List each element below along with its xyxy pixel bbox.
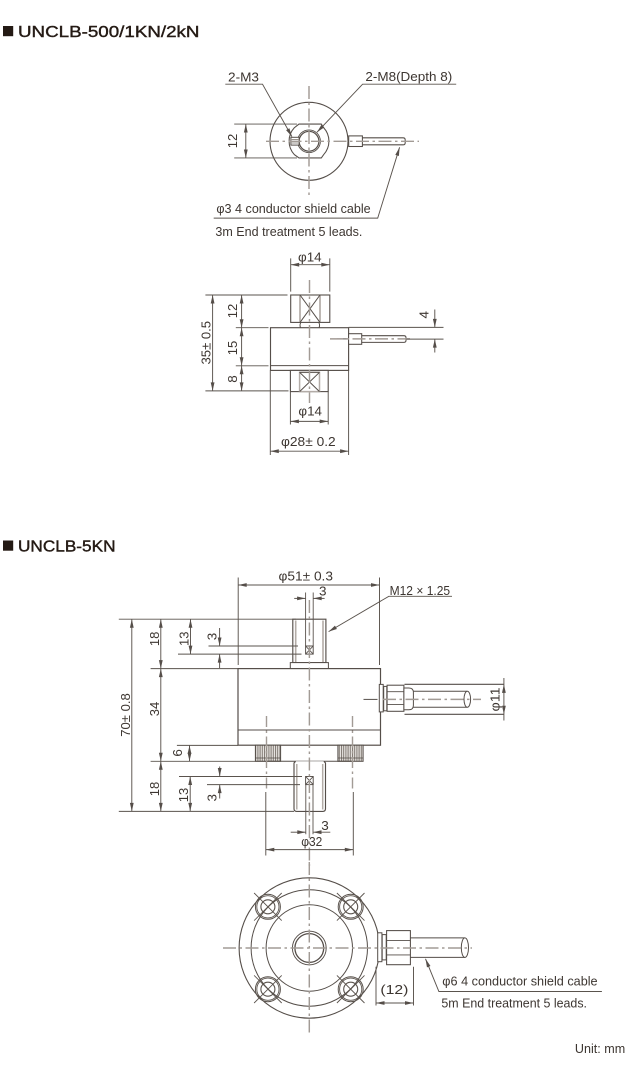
D2 gland nose [404,688,414,710]
D2 bottom stud [294,761,326,811]
svg-text:M12 × 1.25: M12 × 1.25 [390,583,451,598]
D2 dim 13 top dimension line [190,619,192,654]
D2 dim phi51 extension lines [238,578,379,666]
D3 gland washer [378,933,382,962]
svg-text:12: 12 [226,134,240,149]
D2 right knurled boss [338,745,363,761]
D3 leader phi6 [426,959,602,992]
D2 inner cable end cap [464,691,471,707]
D2 dim phi32 extension lines [266,792,354,856]
D1 left extension lines [205,295,288,391]
D2 phi3 hole lines bottom [306,785,313,835]
D1 side view cable centerline [330,338,410,340]
svg-text:18: 18 [148,632,162,647]
D1 top view vertical centerline [308,86,310,197]
D1 M8 hole circle [299,131,319,151]
D3 boss circle phi32 [266,905,352,991]
D3 dim (12) dimension line [376,1002,414,1004]
D2 dim phi32 dimension line [266,849,354,851]
svg-text:12: 12 [226,304,240,319]
D1 leader 2-M3 [225,84,292,136]
D1 top stud thread lines [300,296,320,323]
D2 bottom hole box [306,777,314,785]
D3 gland hex [387,931,411,965]
D1 top view horizontal centerline [266,140,419,142]
D2 bolt centerline right [352,716,354,790]
D3 center hole inner circle [295,934,324,963]
D1 M8 thread outer circle [298,130,321,153]
D2 gland washer1 [379,684,383,712]
D2 top hole box [306,646,314,654]
D2 top stud thread lines [296,621,323,663]
svg-text:4: 4 [417,311,431,319]
D2 dim 18 bottom dimension line [160,761,162,811]
D1 dim 15 dimension line [241,328,243,366]
svg-text:φ6 4 conductor shield cable: φ6 4 conductor shield cable [442,974,597,989]
D3 bolt bottom-left [254,975,282,1003]
D1 top stud cross [300,295,320,322]
D2 bolt centerline left [266,716,268,790]
D1 body [271,328,349,371]
D2 side view vertical centerline [308,600,310,866]
D2 dim phi51 dimension line [238,584,379,586]
D1 bottom stud [290,370,328,391]
svg-text:13: 13 [177,788,191,803]
D3 bolt bottom-right [337,975,365,1003]
svg-text:φ14: φ14 [298,250,322,264]
D1 top view outer circle (body phi28) [270,102,348,180]
D1 dim 4 arrows [434,310,436,353]
svg-text:35± 0.5: 35± 0.5 [200,321,214,365]
svg-text:φ51± 0.3: φ51± 0.3 [279,570,334,584]
svg-text:3: 3 [319,585,327,599]
D2 top stud [293,619,326,662]
D2 gland washer2 [384,686,387,710]
svg-text:φ3 4 conductor shield cable: φ3 4 conductor shield cable [216,201,370,216]
D2 dim 3 top arrows [294,597,324,599]
D2 outer tube [405,684,504,714]
svg-text:34: 34 [148,702,162,717]
svg-text:8: 8 [226,375,240,383]
D1 cable [362,138,405,145]
svg-text:70± 0.8: 70± 0.8 [119,693,133,737]
D2 body inner line [238,729,381,731]
svg-text:3: 3 [321,819,329,833]
D1 M3 hole [291,137,299,145]
D3 bolt top-left [254,893,282,921]
svg-text:15: 15 [226,341,240,356]
svg-text:6: 6 [171,749,185,757]
svg-text:UNCLB-500/1KN/2kN: UNCLB-500/1KN/2kN [18,24,200,41]
svg-text:φ32: φ32 [301,835,322,849]
D1 dim 8 dimension line [241,366,243,391]
D2 dim 34 dimension line [160,669,162,762]
D2 dim 3 left arrows [219,628,221,668]
D3 middle circle bolt circle [251,890,367,1006]
D1 dim phi14 bottom dimension line [290,420,328,422]
D2 flange underside line [266,760,353,762]
svg-text:(12): (12) [380,983,408,997]
D2 dim phi11 dimension line [503,678,505,721]
D1 cable inner line [337,338,349,340]
D2 inner cable [413,691,467,707]
D1 leader 2-M8 [317,84,456,132]
D3 cable [410,938,465,958]
svg-text:3: 3 [206,633,220,641]
D1 dim phi14 bottom extension lines [290,392,328,425]
D2 dim 13 bottom dimension line [189,777,191,812]
D1 top stud neck [300,322,320,327]
D2 dim 70 dimension line [131,619,133,811]
svg-text:2-M3: 2-M3 [228,69,259,84]
D1 bottom stud thread box [300,372,320,391]
D2 dim 18 top dimension line [160,619,162,668]
D2 top stud flare [290,663,328,669]
D1 dim phi14 top extension lines [291,258,330,291]
svg-text:13: 13 [177,631,191,646]
D1 dim 12 extension lines [234,124,297,158]
D1 side cable [362,336,406,343]
svg-text:3m End treatment 5 leads.: 3m End treatment 5 leads. [215,224,362,239]
D2 bottom stud thread lines [297,764,323,810]
header1 square [3,26,13,36]
svg-text:18: 18 [148,782,162,797]
svg-text:φ14: φ14 [298,405,322,419]
D1 side cable connector [349,334,362,345]
D3 bottom view vertical centerline [308,862,310,1034]
D2 left knurled boss [255,745,280,761]
D1 side view vertical centerline [309,280,311,403]
D3 dim (12) extension lines [376,967,414,1006]
svg-text:5m End treatment 5 leads.: 5m End treatment 5 leads. [441,995,587,1010]
D1 cable connector rect [349,136,363,147]
D1 dim phi28 extension lines [270,370,348,455]
D3 gland washer2 [382,935,386,960]
D1 dim phi14 top dimension line [291,264,330,266]
D2 dim 6 dimension line [189,745,191,761]
D2 body cable pin line [364,698,378,700]
svg-text:2-M8(Depth 8): 2-M8(Depth 8) [365,69,452,84]
D2 cable centerline [383,698,481,700]
D3 bolt top-right [337,893,365,921]
D2 gland hex [387,685,404,711]
svg-text:φ11: φ11 [488,687,502,711]
D2 phi3 hole lines top [306,593,314,647]
D1 dim 4 extension lines [349,327,444,339]
D2 dim 3 bottom-left arrows [219,767,221,799]
D2 body [238,669,381,746]
D2 left extension lines [119,619,302,811]
D1 top view boss with wrench flats [289,124,329,158]
D1 dim phi28 dimension line [270,450,348,452]
svg-text:UNCLB-5KN: UNCLB-5KN [18,538,115,555]
D3 cable end cap [461,938,468,958]
D1 dim 12 dimension line [245,124,247,158]
header2 square [3,541,13,551]
svg-text:3: 3 [206,794,220,802]
D3 center hole outer circle [292,931,326,965]
D2 leader M12 [329,596,452,631]
D3 outer circle phi51 [239,878,379,1018]
svg-text:φ28± 0.2: φ28± 0.2 [281,435,336,449]
D1 dim 35 dimension line [212,295,214,391]
svg-text:Unit: mm: Unit: mm [575,1041,625,1056]
D1 dim 12 side dimension line [241,295,243,328]
D1 leader phi3 cable [214,147,400,218]
D2 dim 3 bottom arrows [291,831,331,833]
D1 top stud [291,295,330,322]
D3 bottom view horizontal centerline [223,947,472,949]
D1 body step line [271,365,349,367]
